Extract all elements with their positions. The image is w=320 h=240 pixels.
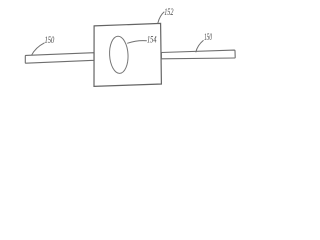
wire leader to right label 150	[196, 40, 204, 52]
svg-text:154: 154	[147, 35, 157, 45]
ellipse 154	[109, 36, 129, 74]
wire leader to left label 150	[32, 43, 45, 56]
svg-text:150: 150	[204, 32, 212, 42]
right rod 150	[161, 50, 235, 59]
body box 152	[94, 23, 161, 86]
wire leader to label 152	[158, 12, 165, 23]
svg-text:150: 150	[45, 35, 55, 45]
left rod 150	[25, 53, 94, 64]
svg-text:152: 152	[164, 7, 174, 17]
wire leader to label 154	[127, 41, 147, 44]
